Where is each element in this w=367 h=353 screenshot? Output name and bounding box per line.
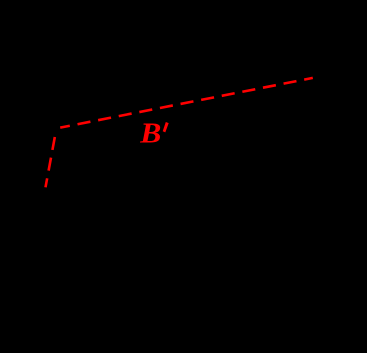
label B' : prime mark xyxy=(163,122,169,132)
short red dashed segment (image side below B') xyxy=(46,130,57,187)
svg-text:B: B xyxy=(139,117,161,149)
label B' : letter B xyxy=(139,117,161,149)
long red dashed segment (image side through B') xyxy=(60,78,313,128)
